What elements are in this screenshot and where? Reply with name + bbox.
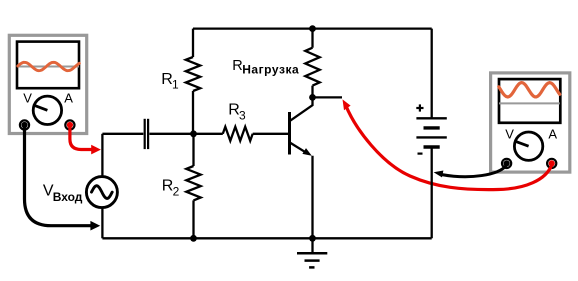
svg-text:2: 2	[173, 184, 180, 198]
node collector junction	[309, 94, 316, 101]
node base junction	[190, 130, 197, 137]
battery B1	[416, 29, 446, 239]
node R2 bottom junction	[190, 235, 197, 242]
ground	[297, 238, 327, 267]
node top rail junction	[309, 25, 316, 32]
resistor R1	[186, 29, 200, 134]
svg-text:3: 3	[239, 108, 246, 122]
probe lead black M1	[25, 127, 101, 231]
resistor Rнагрузка (load)	[305, 29, 319, 98]
svg-text:A: A	[64, 91, 73, 106]
svg-text:Нагрузка: Нагрузка	[242, 63, 299, 77]
svg-text:A: A	[548, 127, 557, 142]
capacitor C1	[102, 119, 193, 149]
voltmeter M1 (input meter)	[9, 35, 86, 133]
label -	[418, 153, 423, 155]
svg-text:V: V	[23, 91, 32, 106]
source Vвход	[86, 134, 117, 239]
probe lead red M1	[70, 127, 101, 154]
transistor Q1	[290, 97, 313, 238]
svg-text:V: V	[505, 127, 514, 142]
label +	[416, 104, 423, 111]
node emitter-ground junction	[309, 235, 316, 242]
wire top rail	[193, 27, 432, 29]
wire bottom rail	[102, 237, 431, 239]
svg-text:1: 1	[172, 78, 179, 92]
probe lead black M2	[434, 165, 507, 177]
resistor R2	[186, 134, 200, 239]
svg-text:R: R	[232, 58, 242, 74]
collector probe stub	[313, 96, 343, 98]
probe lead red M2	[343, 99, 552, 189]
resistor R3	[194, 127, 289, 141]
svg-text:Вход: Вход	[53, 190, 83, 204]
voltmeter M2 (output meter)	[491, 73, 570, 172]
